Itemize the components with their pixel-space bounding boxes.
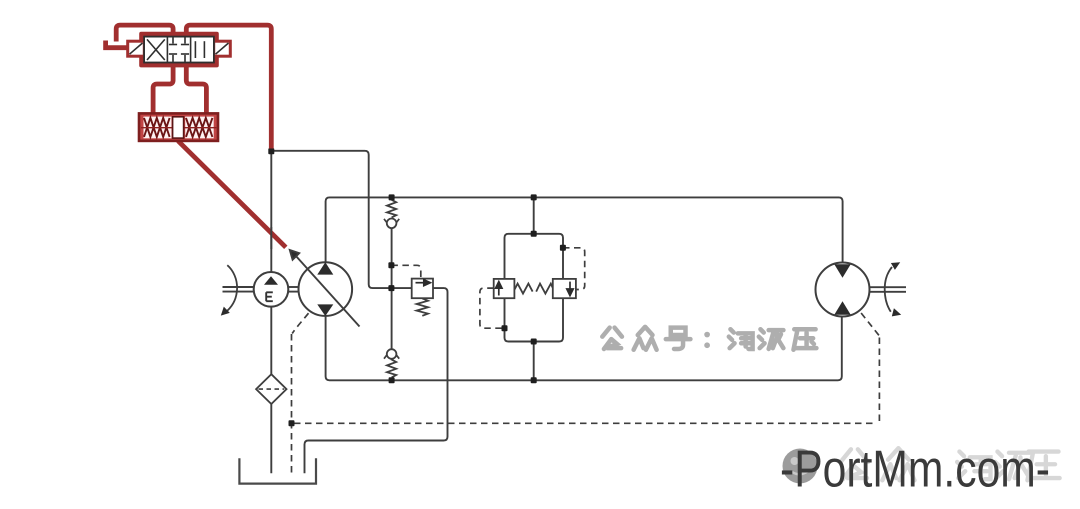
svg-text:-PortMm.com-: -PortMm.com- — [780, 440, 1050, 498]
